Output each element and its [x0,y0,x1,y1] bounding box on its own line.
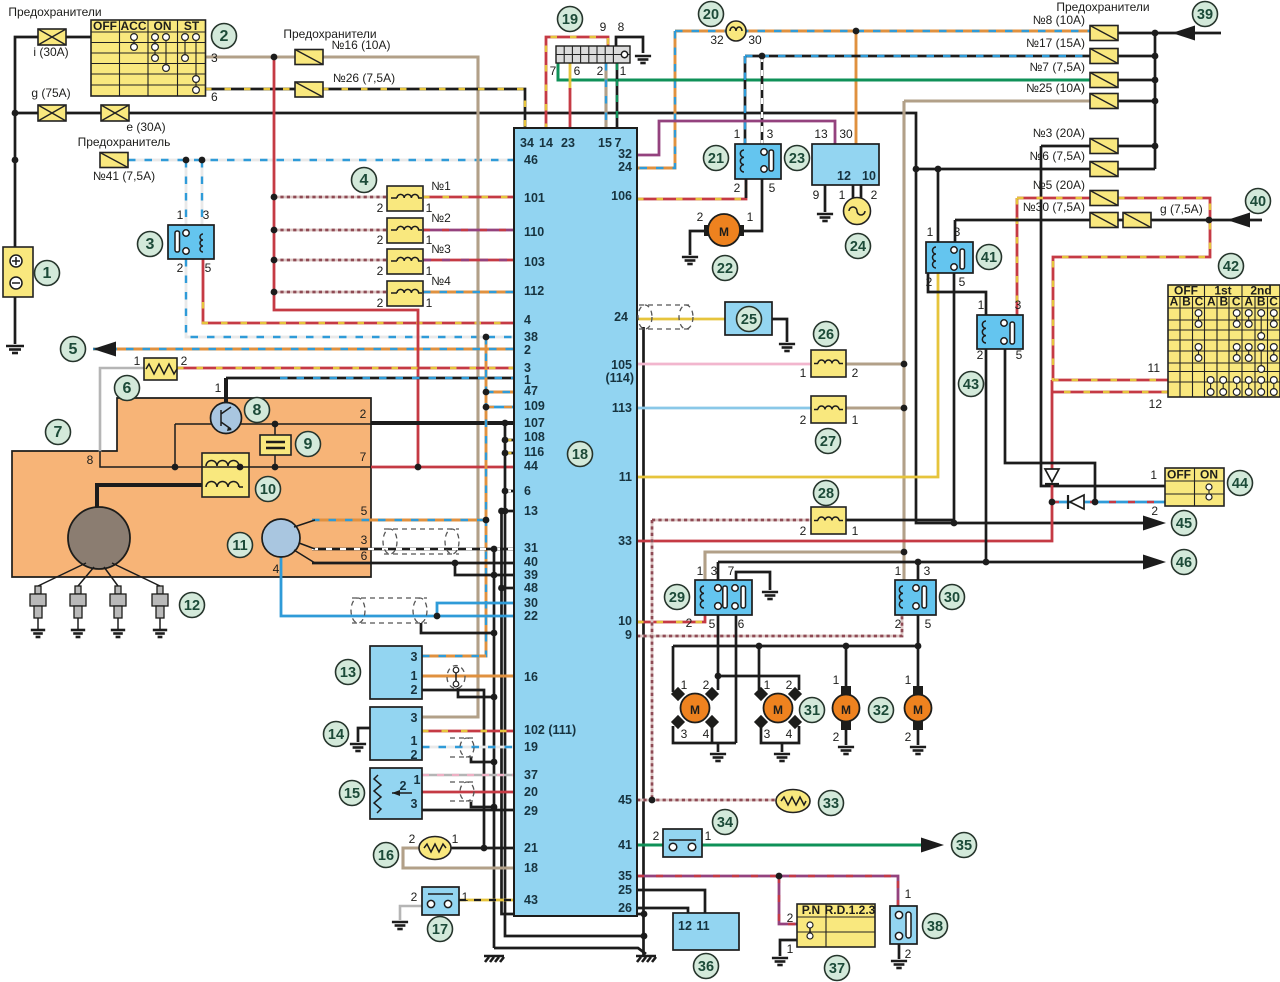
wire fuse N6 right [1118,168,1155,171]
svg-text:24: 24 [618,160,632,174]
svg-text:M: M [913,703,923,717]
wire ignition 3 via fuse N16 to sensor 14 pin 3 [205,57,478,717]
svg-text:7: 7 [550,64,557,78]
svg-text:2: 2 [411,890,418,904]
svg-text:1: 1 [734,127,741,141]
wire ECU pin 113 to resistor 27 [637,407,812,410]
svg-text:№2: №2 [431,211,451,225]
wire injector N4 to ECU pin 112 [423,291,514,294]
wire sensor 15 pin 1 to ECU pin 37 [422,774,514,777]
wire relay contact bus [718,561,986,564]
svg-text:№3: №3 [431,242,451,256]
svg-text:№25 (10A): №25 (10A) [1026,81,1085,95]
svg-text:5: 5 [925,617,932,631]
wire fuse N5 left [1017,197,1090,200]
motor label 32 [869,698,894,723]
svg-text:38: 38 [524,330,538,344]
fuse g 75A [38,105,66,121]
wire rotor pin 5 orange/blue [312,519,486,522]
svg-text:3: 3 [1015,298,1022,312]
relay 29 [695,580,752,615]
svg-text:1: 1 [1150,468,1157,482]
switch 38 [890,906,917,944]
diode on red line [1045,469,1059,482]
relay label 3 [138,232,163,257]
wire fuse N7 right [1118,79,1155,82]
relay label 30 [940,585,965,610]
wire relay 43 pin 5 to diode [1005,349,1095,502]
svg-text:108: 108 [524,430,545,444]
wire ECU pin 41 green to arrow 35 [637,844,930,847]
svg-text:102 (111): 102 (111) [524,723,576,737]
svg-text:48: 48 [524,581,538,595]
svg-text:2: 2 [524,343,531,357]
svg-text:32: 32 [710,33,724,47]
wire fuse N25 tan vertical to relay 30 pin 1 [902,101,905,580]
wire ECU pin 26 to unit 36 [637,908,688,913]
svg-text:35: 35 [618,869,632,883]
wire relay 3 pin 2 to ECU pin 38 [186,259,514,337]
wire transistor base [175,423,211,425]
wire red riser above diode [1051,380,1054,470]
svg-text:12: 12 [837,169,851,183]
capacitor label 9 [296,432,321,457]
ground battery [6,346,24,353]
wire relay 43 pin 2 [985,349,988,562]
svg-text:20: 20 [524,785,538,799]
svg-text:23: 23 [789,151,805,167]
inhibitor switch 37 [797,904,875,947]
svg-text:3: 3 [411,711,418,725]
ground switch 37 [772,958,788,965]
motor 32a [841,686,851,695]
svg-text:1: 1 [927,225,934,239]
arrow label 39 [1193,2,1218,27]
wire e(30A) main feed to arrow 45 [15,113,1150,523]
wire to relay 23 pin 30 [855,31,858,144]
svg-text:5: 5 [69,341,78,358]
wire fuse N30 left [955,219,1090,222]
svg-text:1: 1 [697,564,704,578]
sensor label 15 [340,781,365,806]
wire stub pin 116 [505,452,514,455]
svg-text:1: 1 [852,413,859,427]
ground sensor 14 [350,744,366,751]
ground motor 31a [710,754,726,761]
motor 31b [754,687,768,701]
svg-text:103: 103 [524,255,545,269]
fuse №7 (7,5A) [1090,73,1118,88]
wire ECU pin 106 to relay 21 pin 2 [637,179,746,199]
svg-text:№30 (7,5A): №30 (7,5A) [1023,200,1085,214]
svg-text:3: 3 [681,727,688,741]
wire red/yellow to ECU pin 4 [203,302,514,323]
svg-text:101: 101 [524,191,545,205]
svg-text:2: 2 [800,413,807,427]
fuse g 7.5A [1123,213,1151,228]
svg-text:№26 (7,5A): №26 (7,5A) [333,71,395,85]
table 42 contact circles [1199,313,1274,392]
svg-text:OFF: OFF [93,19,117,33]
wire relay 23 pin 9 to ground [824,185,827,212]
svg-text:1: 1 [177,208,184,222]
svg-text:2: 2 [377,264,384,278]
svg-text:16: 16 [524,670,538,684]
wire resistor 27 pin 1 [846,406,904,409]
svg-text:B: B [1182,295,1191,309]
wire transistor emitter line [241,423,371,425]
ECU 18 [514,128,637,916]
svg-text:11: 11 [232,538,247,554]
wire switch 17 to ECU pin 43 [459,899,514,902]
relay label 21 [704,146,729,171]
wire battery positive to ignition switch [15,37,91,247]
svg-text:g (75A): g (75A) [31,86,70,100]
svg-text:M: M [719,225,729,239]
svg-text:№4: №4 [431,274,451,288]
svg-text:12: 12 [184,598,200,614]
svg-text:110: 110 [524,225,544,239]
svg-text:B: B [1257,295,1266,309]
svg-text:3: 3 [361,533,368,547]
coil label 10 [256,477,281,502]
svg-text:2: 2 [411,748,418,762]
svg-text:43: 43 [963,377,979,393]
switch label 17 [428,917,453,942]
svg-text:5: 5 [361,504,368,518]
wire injector N2 to ECU pin 110 [423,229,514,232]
rotor label 11 [228,533,253,558]
resistor label 26 [814,322,839,347]
wire injector N3 to ECU pin 103 [423,259,514,262]
wire motor supply bus [673,645,918,648]
svg-text:28: 28 [818,486,834,502]
wire relay 21 pin 3 black/white [761,56,764,144]
spark plugs 12 [30,586,46,630]
svg-text:8: 8 [253,402,262,419]
svg-text:4: 4 [524,313,531,327]
svg-text:1: 1 [705,829,712,843]
svg-text:№7 (7,5A): №7 (7,5A) [1029,60,1085,74]
wire capacitor 9 legs [274,424,276,467]
svg-text:2: 2 [977,348,984,362]
injector №4 [387,281,423,306]
shield screen pin 19 [450,738,474,757]
svg-text:37: 37 [524,768,538,782]
wire branch to switch 37 [779,876,797,924]
switch label 37 [825,956,850,981]
wire motor 1 pin 2 lead [717,676,720,690]
wire injector N2 pin 2 [274,229,387,232]
wire orange/blue to ECU pin 2 / arrow 5 [93,348,514,351]
ground relay 29 pin 7 [762,592,778,599]
svg-text:2: 2 [786,678,793,692]
wire ECU 14 to connector pin 9 [546,37,608,130]
motor 22 [704,225,713,236]
svg-text:2: 2 [905,730,912,744]
svg-text:34: 34 [717,815,733,831]
wire fuse N17 right [1118,55,1155,58]
svg-text:41: 41 [981,250,997,266]
arrow 40 input [1227,213,1250,228]
unit 36 [673,913,739,950]
svg-text:22: 22 [524,609,538,623]
wire sensor 15 pin 2 to ECU pin 20 [422,791,514,794]
svg-text:OFF: OFF [1167,468,1191,482]
svg-text:32: 32 [873,703,889,719]
svg-text:M: M [773,703,783,717]
sensor 14 [370,707,422,760]
svg-text:106: 106 [611,189,632,203]
svg-text:21: 21 [708,151,724,167]
svg-text:105: 105 [611,358,632,372]
wire relay 29 pin 6 [735,615,738,743]
ground motor 32a [838,747,854,754]
wire coil secondary to distributor [97,485,202,508]
switch table 44 [1165,468,1224,506]
wire motor 3 pin 1 lead [845,646,848,688]
switch 34 [663,829,702,857]
svg-text:M: M [690,703,700,717]
svg-text:2: 2 [833,730,840,744]
svg-text:1: 1 [411,734,418,748]
svg-text:112: 112 [524,284,544,298]
wire injector N1 pin 2 [274,196,387,199]
wire stub pin 108 [505,439,514,442]
svg-text:3: 3 [411,797,418,811]
fuse №6 (7,5A) [1090,162,1118,177]
battery 1 [3,247,33,297]
svg-text:2: 2 [409,832,416,846]
resistor 27 [811,396,846,423]
svg-text:29: 29 [524,804,538,818]
svg-text:1: 1 [43,265,52,282]
shield screen pin 24 [638,305,693,329]
svg-text:26: 26 [618,901,632,915]
fuse №3 (20A) [1090,139,1118,154]
svg-text:9: 9 [625,628,632,642]
shield screen speed wires [351,598,427,623]
svg-text:7: 7 [728,564,735,578]
sensor 13 [370,646,422,699]
svg-text:15: 15 [598,136,612,150]
wire connector pin 1 to ECU pin 7 [616,63,619,130]
wire sensor 14 ground lead [358,728,370,742]
svg-text:1: 1 [620,64,627,78]
ground unit 25 [779,344,795,351]
wire suppressor drain [458,688,494,697]
svg-text:19: 19 [562,12,578,28]
wire fuse N25 left [904,99,1090,102]
wire resistor 6 pin 2 to ECU pin 3 [177,367,514,370]
svg-text:33: 33 [618,534,632,548]
svg-text:g (7,5A): g (7,5A) [1160,202,1203,216]
connector 19 [556,46,630,63]
svg-text:3: 3 [146,236,155,253]
svg-text:40: 40 [1250,194,1266,210]
unit label 23 [785,146,810,171]
wire resistor 6 pin 1 grey [100,368,144,452]
svg-text:2: 2 [905,947,912,961]
svg-text:A: A [1207,295,1216,309]
svg-text:41: 41 [618,838,632,852]
wire device 25 ground lead [772,319,787,342]
svg-text:3: 3 [924,564,931,578]
svg-text:23: 23 [561,136,575,150]
svg-text:3: 3 [767,127,774,141]
ground ECU right [636,956,656,962]
wire injector N3 pin 2 [274,259,387,262]
arrow label 45 [1172,511,1197,536]
wire to arrow 46 [986,561,1150,564]
svg-text:9: 9 [600,20,607,34]
wire relay 21 pin 2 stub [745,179,748,198]
svg-text:9: 9 [304,436,313,453]
svg-text:11: 11 [1148,361,1161,375]
svg-text:2: 2 [400,779,407,793]
transistor 8 [211,403,242,434]
svg-text:2: 2 [686,616,693,630]
motor label 22 [713,256,738,281]
wire rotor pin 3 to ECU pin 31 [312,548,514,551]
svg-text:3: 3 [203,208,210,222]
wire ECU pin 33 red [637,484,1052,541]
fuse N41 [100,153,128,168]
svg-text:31: 31 [804,703,820,719]
svg-text:3: 3 [954,225,961,239]
svg-text:46: 46 [1176,555,1192,571]
svg-text:№1: №1 [431,179,451,193]
wire motor 22 pin 2 to ground [690,231,706,255]
wire fuse N8 to arrow 39 [1118,32,1221,35]
svg-text:9: 9 [813,188,820,202]
arrow label 40 [1246,189,1271,214]
generator 24 [844,198,871,225]
svg-text:13: 13 [340,665,356,681]
distributor rotor plate [68,507,130,569]
arrow 45 output [1143,516,1166,531]
wire rotor pin 6 to ECU pin 40 [312,562,514,565]
rotor sensor 11 [262,519,300,557]
svg-text:33: 33 [823,796,839,812]
svg-text:26: 26 [818,327,834,343]
svg-text:Предохранители: Предохранители [283,27,376,41]
svg-text:10: 10 [618,614,632,628]
wire stub pin 48 [502,587,515,590]
svg-text:5: 5 [205,261,212,275]
fuse i 30A [38,29,66,45]
svg-text:1: 1 [839,188,846,202]
motor 31a [671,687,685,701]
wire ECU pin 24 shielded to device 25 [637,318,725,321]
fuse N16 10A [295,50,323,65]
svg-text:14: 14 [539,136,553,150]
wire motor 2 pin 1 lead [758,646,761,690]
svg-text:6: 6 [361,549,368,563]
wire fuse N3 to switch 44 pin 1 [1041,146,1165,486]
svg-text:2: 2 [377,233,384,247]
svg-text:15: 15 [344,786,360,802]
svg-text:ON: ON [154,19,172,33]
svg-text:19: 19 [524,740,538,754]
svg-text:39: 39 [1197,7,1213,23]
svg-text:1: 1 [215,381,222,395]
wire to relay 3 pin 1 [185,160,188,225]
connector label 19 [558,7,583,32]
relay label 43 [959,372,984,397]
wire fuse N41 blue/white to ECU pin 46 [128,159,514,162]
wire ECU pin 25 to unit 36 [637,890,705,913]
wire sensor distribution vertical [422,337,486,656]
wire stub ECU pin 47 [486,391,514,394]
svg-text:8: 8 [618,20,625,34]
wire switch 17 pin 2 to ground [400,906,422,920]
wire sensor 14 pin 1 to ECU pin 102 [422,730,514,733]
svg-text:31: 31 [524,541,538,555]
svg-text:30: 30 [839,127,853,141]
wire switch 38 pin 2 ground lead [898,944,901,959]
unit 23 [812,144,879,185]
ignition switch label 2 [212,24,237,49]
wire to relay 21 pin 1 [744,56,747,144]
svg-text:№8 (10A): №8 (10A) [1033,13,1085,27]
svg-text:39: 39 [524,568,538,582]
wire coil primary to ECU pin 44 [371,466,514,469]
injectors label 4 [352,168,377,193]
resistor label 33 [819,791,844,816]
svg-text:47: 47 [524,384,538,398]
svg-text:A: A [1170,295,1179,309]
lamp 20 [726,21,746,41]
wire connector pin 6 yellow [569,63,572,90]
wire ECU pin 109 blue/orange [486,406,514,409]
svg-text:5: 5 [769,181,776,195]
motor 32b [913,686,923,695]
wire fuse N5 right loop [1053,198,1210,380]
battery label 1 [35,261,60,286]
wire sensor 15 pin 3 to ECU pin 29 [422,809,514,812]
svg-text:№3 (20A): №3 (20A) [1033,126,1085,140]
svg-text:2: 2 [377,201,384,215]
wire branch to relay 29 pin 1 [705,552,904,580]
svg-text:(114): (114) [606,371,635,385]
svg-text:6: 6 [738,617,745,631]
resistor 16 [419,837,451,860]
wire relay 29 pin 7 to ground [736,572,770,590]
svg-text:25: 25 [741,312,757,328]
svg-text:32: 32 [618,147,632,161]
wire to ECU pin 24 top [637,31,675,168]
svg-text:44: 44 [524,459,538,473]
svg-text:2: 2 [871,188,878,202]
sensor label 14 [324,722,349,747]
wire table 42 pin 12 [1052,391,1168,394]
wire signal ground vertical A [505,423,644,936]
svg-text:C: C [1195,295,1204,309]
motor label 31 [800,698,825,723]
ground switch 38 [891,961,907,968]
wire branch to ECU pin 39 [455,563,514,575]
wire ECU pin 11 to relay 41 [637,273,938,477]
resistor label 6 [115,376,140,401]
svg-text:21: 21 [524,841,538,855]
wire ECU pin 32 violet to relay 23 pin 13 [637,121,835,155]
resistor label 27 [816,429,841,454]
module label 7 [46,420,71,445]
wire ECU pin 9 to relay 30 pin 2 [637,615,902,636]
wire motor 1 ground stub [717,743,720,752]
svg-text:27: 27 [820,434,836,450]
